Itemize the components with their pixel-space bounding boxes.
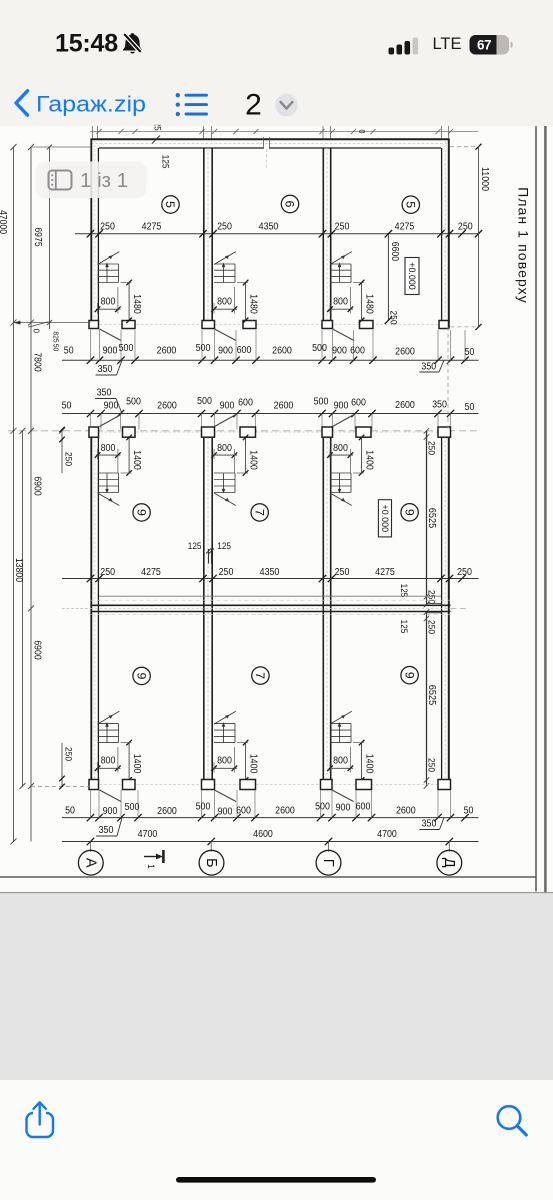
svg-text:800: 800 [333, 443, 348, 454]
svg-text:1400: 1400 [131, 450, 142, 470]
svg-text:50: 50 [52, 344, 61, 352]
svg-text:1400: 1400 [131, 754, 142, 774]
svg-text:900: 900 [220, 401, 235, 412]
svg-text:0: 0 [357, 130, 366, 134]
svg-text:900: 900 [218, 807, 233, 818]
svg-text:0: 0 [31, 329, 41, 333]
svg-text:2600: 2600 [157, 346, 177, 357]
svg-text:2600: 2600 [157, 806, 177, 817]
svg-text:125: 125 [188, 541, 202, 551]
svg-text:2600: 2600 [275, 806, 295, 817]
svg-text:6525: 6525 [426, 685, 437, 706]
svg-text:250: 250 [458, 221, 473, 232]
svg-text:600: 600 [238, 398, 253, 409]
svg-text:LTE: LTE [432, 35, 461, 53]
svg-text:1400: 1400 [247, 450, 258, 470]
svg-text:Д: Д [441, 858, 457, 868]
svg-text:2: 2 [245, 89, 262, 122]
svg-text:А: А [83, 858, 99, 868]
svg-text:15:48: 15:48 [55, 30, 118, 58]
svg-text:9: 9 [134, 509, 148, 516]
svg-text:250: 250 [388, 311, 399, 325]
svg-text:900: 900 [218, 346, 233, 357]
svg-text:500: 500 [196, 343, 211, 354]
svg-text:4700: 4700 [377, 829, 397, 840]
svg-text:50: 50 [64, 346, 74, 357]
svg-text:4275: 4275 [141, 567, 161, 578]
svg-text:6525: 6525 [426, 508, 437, 529]
svg-text:5: 5 [404, 201, 418, 208]
svg-text:6975: 6975 [32, 227, 43, 247]
svg-text:250: 250 [426, 758, 437, 772]
svg-text:800: 800 [217, 756, 232, 767]
svg-text:2600: 2600 [395, 400, 415, 411]
svg-text:350: 350 [97, 388, 112, 399]
svg-text:7: 7 [252, 509, 266, 516]
svg-text:7800: 7800 [32, 352, 43, 372]
svg-text:1400: 1400 [363, 754, 374, 774]
svg-text:6900: 6900 [32, 640, 43, 660]
svg-text:500: 500 [312, 343, 327, 354]
svg-text:900: 900 [104, 401, 119, 412]
svg-text:+0.000: +0.000 [380, 505, 390, 533]
svg-text:9: 9 [134, 672, 148, 679]
svg-text:4275: 4275 [375, 567, 395, 578]
svg-text:4600: 4600 [253, 829, 273, 840]
svg-text:250: 250 [335, 221, 350, 232]
svg-text:250: 250 [426, 441, 437, 455]
svg-text:4275: 4275 [395, 221, 415, 232]
svg-text:600: 600 [236, 805, 251, 816]
svg-text:2600: 2600 [157, 401, 177, 412]
svg-text:250: 250 [335, 567, 350, 578]
svg-text:350: 350 [421, 361, 436, 372]
svg-text:900: 900 [103, 346, 118, 357]
svg-text:250: 250 [63, 747, 74, 761]
svg-text:6900: 6900 [32, 476, 43, 496]
svg-text:1: 1 [145, 864, 156, 869]
svg-text:800: 800 [217, 297, 232, 308]
svg-text:500: 500 [119, 343, 134, 354]
svg-text:6: 6 [283, 201, 297, 208]
svg-text:125: 125 [399, 584, 409, 598]
svg-text:825: 825 [52, 331, 61, 342]
svg-text:1480: 1480 [363, 294, 374, 314]
svg-text:6600: 6600 [389, 242, 400, 262]
svg-text:600: 600 [356, 802, 371, 813]
svg-text:500: 500 [126, 397, 141, 408]
svg-text:50: 50 [65, 806, 75, 817]
svg-text:1400: 1400 [363, 450, 374, 470]
svg-text:250: 250 [100, 567, 115, 578]
svg-text:7: 7 [253, 672, 267, 679]
svg-text:250: 250 [100, 221, 115, 232]
svg-text:800: 800 [333, 297, 348, 308]
svg-text:47000: 47000 [0, 210, 8, 235]
svg-text:50: 50 [465, 402, 475, 413]
svg-text:1480: 1480 [247, 294, 258, 314]
svg-text:800: 800 [333, 756, 348, 767]
svg-text:4350: 4350 [260, 567, 280, 578]
svg-text:600: 600 [237, 345, 252, 356]
svg-text:250: 250 [63, 452, 74, 466]
svg-text:Б: Б [203, 858, 219, 868]
svg-text:250: 250 [457, 567, 472, 578]
svg-text:350: 350 [432, 400, 447, 411]
svg-text:2600: 2600 [272, 346, 292, 357]
svg-text:125: 125 [159, 155, 170, 169]
svg-text:800: 800 [101, 297, 116, 308]
svg-text:500: 500 [197, 396, 212, 407]
svg-text:50: 50 [464, 805, 474, 816]
svg-text:250: 250 [426, 620, 437, 634]
svg-text:9: 9 [402, 672, 416, 679]
svg-text:125: 125 [399, 620, 409, 634]
svg-text:Г: Г [320, 859, 336, 867]
svg-text:+0.000: +0.000 [407, 262, 417, 290]
svg-text:900: 900 [334, 401, 349, 412]
svg-text:67: 67 [477, 38, 491, 53]
svg-text:800: 800 [217, 443, 232, 454]
svg-text:2600: 2600 [396, 805, 416, 816]
svg-text:600: 600 [351, 398, 366, 409]
svg-text:900: 900 [336, 803, 351, 814]
svg-text:1400: 1400 [247, 754, 258, 774]
svg-text:500: 500 [196, 802, 211, 813]
svg-text:500: 500 [125, 802, 140, 813]
svg-text:500: 500 [315, 802, 330, 813]
svg-text:50: 50 [62, 400, 72, 411]
svg-text:50: 50 [465, 347, 475, 358]
svg-text:125: 125 [217, 541, 231, 551]
svg-text:350: 350 [99, 825, 114, 836]
svg-text:500: 500 [314, 397, 329, 408]
svg-text:250: 250 [219, 567, 234, 578]
svg-text:2600: 2600 [395, 347, 415, 358]
svg-text:5: 5 [163, 201, 177, 208]
svg-text:9: 9 [402, 509, 416, 516]
svg-text:4275: 4275 [142, 221, 162, 232]
svg-text:350: 350 [422, 819, 437, 830]
svg-text:900: 900 [103, 806, 118, 817]
svg-text:Гараж.zip: Гараж.zip [36, 92, 146, 117]
svg-text:800: 800 [101, 443, 116, 454]
svg-text:250: 250 [426, 590, 437, 604]
svg-text:1 із 1: 1 із 1 [80, 169, 128, 192]
svg-text:4700: 4700 [138, 829, 158, 840]
svg-text:250: 250 [217, 221, 232, 232]
svg-text:1480: 1480 [131, 294, 142, 314]
svg-text:13800: 13800 [13, 558, 24, 583]
svg-text:План 1 поверху: План 1 поверху [516, 187, 532, 304]
svg-text:2600: 2600 [274, 401, 294, 412]
svg-text:600: 600 [350, 346, 365, 357]
svg-text:11000: 11000 [479, 167, 490, 192]
svg-text:350: 350 [98, 364, 113, 375]
svg-text:900: 900 [332, 346, 347, 357]
svg-text:800: 800 [101, 756, 116, 767]
svg-text:4350: 4350 [259, 221, 279, 232]
